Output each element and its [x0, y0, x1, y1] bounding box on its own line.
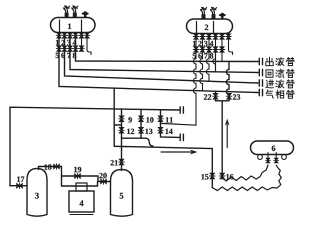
wire column through valves 11 and 14 with stub to end mark	[161, 110, 180, 138]
wire vessel 2 drop pipe to outlet bus L1	[221, 34, 223, 62]
wire return pipe bus L2	[70, 33, 258, 73]
valve 18	[54, 164, 60, 170]
storage tank vessel 1	[51, 18, 96, 33]
wire vessel 2 drop pipe to gas bus L4	[200, 34, 203, 91]
valve 15	[210, 173, 216, 179]
safety valve on vessel 1 (right)	[71, 5, 78, 17]
pipe end mark L3	[259, 80, 262, 86]
label 气相管 gas phase pipe	[266, 90, 294, 98]
label 回流管 return pipe	[266, 69, 294, 77]
valve row1 #6 under vessel 2	[226, 34, 231, 39]
tank 3 cylinder	[27, 169, 47, 217]
vessel 2 valve stems	[209, 34, 229, 71]
valve numbers row1 under vessel 2	[193, 41, 196, 46]
valve numbers 5-8 under vessel 1	[56, 53, 59, 58]
truck wheel left	[258, 155, 263, 160]
vessel 1 drain hook	[87, 50, 91, 55]
label 进液管 inlet pipe	[266, 80, 294, 88]
valve row1 #1 under vessel 2	[193, 34, 198, 39]
valve 9	[119, 116, 125, 122]
wire drop from L1 to valve 23 (hops L2 L3 L4)	[226, 61, 229, 100]
pump 4	[69, 183, 94, 215]
wire column through valves 10 and 13	[140, 109, 142, 138]
valve 21	[119, 159, 125, 165]
wire drop from L4 to valve 22	[215, 91, 217, 101]
wire gas phase bus L4	[59, 33, 258, 93]
valve 16	[219, 173, 225, 179]
valve row2 #5 under vessel 1	[56, 46, 61, 51]
valve 14	[158, 128, 164, 134]
valve row1 #1 under vessel 1	[56, 33, 61, 38]
valve 10	[138, 116, 144, 122]
tank 5 cylinder	[111, 170, 133, 217]
valve numbers row2 under vessel 2	[193, 53, 196, 58]
valve row2 #7 under vessel 2	[206, 47, 211, 52]
wire vessel 2 drop pipe to inlet bus L3	[206, 52, 209, 81]
pipe end mark L1	[259, 58, 262, 64]
valve 19	[75, 173, 81, 179]
valve 22	[213, 93, 219, 99]
hose from valve 16 to tank truck left connection	[222, 165, 268, 181]
valve row2 #5 under vessel 2	[193, 47, 198, 52]
wire column through valves 9 and 12 down to valve 21 and tank 5	[121, 109, 123, 171]
valve row1 #4 under vessel 2	[213, 34, 218, 39]
valve 12	[119, 128, 125, 134]
capped nozzle on vessel 2	[219, 13, 226, 19]
valve row2 #9 under vessel 1	[79, 46, 84, 51]
wire feeder from L4 down to tee between valves 9 and 12	[114, 88, 121, 146]
valve 23	[226, 93, 232, 99]
wire stub from valve 12 column to valve 13 column bottom	[122, 138, 154, 146]
valve row1 #6 under vessel 1	[84, 33, 89, 38]
wire vessel 2 drop pipe to manifold feeder (hops 4 buses)	[193, 34, 196, 126]
valve row1 #2 under vessel 2	[200, 34, 205, 39]
truck connection stub left with valve	[267, 153, 269, 161]
arrow flow up annotation	[226, 125, 228, 148]
vessel 2 drain hook	[229, 50, 233, 55]
valve numbers 1-4 under vessel 1	[56, 40, 59, 45]
hose from valve 15 to tank truck right connection	[212, 165, 281, 190]
arrow flow right annotation	[161, 151, 192, 153]
wire tank 3 top pipe to valve 18	[39, 167, 62, 177]
tank truck vessel 6	[251, 141, 294, 155]
pipe end mark L6	[180, 107, 183, 113]
valve 13	[138, 128, 144, 134]
valve row2 #6 under vessel 2	[200, 47, 205, 52]
valve row1 #3 under vessel 1	[67, 33, 72, 38]
wire loading line from feeder down along to truck riser	[114, 146, 212, 187]
wire vessel 2 drop pipe to return bus L2	[213, 52, 216, 72]
valve row1 #5 under vessel 1	[79, 33, 84, 38]
valve row1 #3 under vessel 2	[206, 34, 211, 39]
wire suction header L6 and left drop to valve 17	[10, 107, 179, 186]
valve row2 #8 under vessel 2	[213, 47, 218, 52]
valve row2 #6 under vessel 1	[62, 46, 67, 51]
valve 17	[17, 183, 23, 189]
wire outlet pipe bus L1	[76, 33, 259, 62]
wire from left drop to tank 3 through valve 17	[10, 185, 27, 187]
capped nozzle on vessel 1	[82, 11, 89, 17]
wire inlet pipe bus L3	[65, 33, 259, 83]
storage tank vessel 2	[187, 19, 233, 34]
valve row1 #4 under vessel 1	[73, 33, 78, 38]
wire loop joining valves 22 and 23 with center drop to valve 16	[216, 101, 230, 173]
valve row2 #9 under vessel 2	[219, 47, 224, 52]
valve row2 #8 under vessel 1	[73, 46, 78, 51]
wire pump suction-discharge manifold loop	[62, 176, 111, 186]
truck connection stub right with valve	[275, 153, 277, 161]
safety valve on vessel 2 (right)	[210, 7, 217, 19]
pipe end mark L4	[259, 89, 262, 95]
wire feeder from vessel 2 drop to tee between valves 11 and 14	[161, 123, 197, 125]
pipe end mark after valve 14	[180, 134, 183, 140]
pipe end mark L2	[259, 69, 262, 75]
safety valve on vessel 1 (left)	[63, 5, 70, 17]
valve row1 #5 under vessel 2	[219, 34, 224, 39]
truck wheel right	[282, 155, 287, 160]
valve row1 #2 under vessel 1	[62, 33, 67, 38]
valve 20	[101, 179, 107, 185]
safety valve on vessel 2 (left)	[200, 7, 207, 19]
valve row2 #7 under vessel 1	[67, 46, 72, 51]
valve 11	[158, 116, 164, 122]
vessel 1 valve stems	[82, 33, 88, 52]
label 出液管 outlet pipe	[266, 57, 294, 65]
